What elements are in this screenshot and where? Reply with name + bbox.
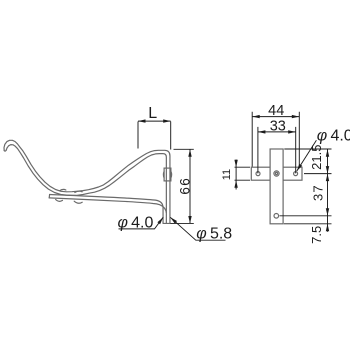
dimension 37 (311, 174, 330, 216)
rivet head upper 1 on hook strip (60, 189, 66, 190)
svg-text:37: 37 (311, 184, 326, 201)
svg-text:φ 4.0: φ 4.0 (118, 215, 154, 232)
mounting plate bottom edge (163, 222, 171, 224)
leader label diameter 4.0 (right view hole) (297, 128, 350, 171)
dimension 11 (221, 160, 250, 190)
svg-text:7.5: 7.5 (309, 226, 324, 244)
svg-text:φ 5.8: φ 5.8 (196, 226, 232, 243)
bottom hole (274, 214, 279, 219)
dimension 33 (258, 119, 296, 174)
dimension 44 (252, 103, 299, 166)
svg-text:44: 44 (268, 103, 284, 119)
svg-text:11: 11 (221, 169, 233, 180)
right side chained dimensions extension lines (280, 149, 332, 224)
horizontal cross bar (251, 167, 302, 180)
rivet head upper 2 on hook strip (75, 191, 82, 192)
leader label diameter 5.8 (plate thickness) (170, 217, 232, 242)
right hole (294, 172, 298, 176)
lower support bar strip: angled left end (48, 195, 50, 198)
svg-text:L: L (148, 105, 157, 122)
center rivet inner (275, 172, 277, 174)
hook strip upper contour: over curl apex, down right side of C, dip top, rising to top arm, bend, plate right face (4, 140, 170, 223)
left hole (256, 172, 260, 176)
rivet head lower 2 under support bar (74, 201, 82, 203)
dimension 7.5 (309, 224, 329, 244)
lower support bar top line bending down to vertical against plate (50, 195, 163, 223)
hook strip lower contour: inside curl, down left side of C, dip bottom, arm bottom, inner bend, plate left face (6, 145, 166, 224)
dimension 21.5 (309, 145, 329, 174)
shared vertical dimension line (327, 149, 329, 232)
svg-text:66: 66 (178, 177, 193, 195)
cross bar sleeve seen edge-on with rivet bulges (163, 168, 171, 181)
dimension 66 (171, 149, 194, 223)
svg-text:33: 33 (270, 119, 286, 135)
lower support bar bottom line with inner bend (49, 198, 166, 213)
dimension L (138, 105, 171, 150)
svg-text:21.5: 21.5 (309, 145, 324, 170)
vertical mounting plate (270, 149, 283, 224)
curl tip end cap (4, 149, 6, 152)
center rivet outer (274, 171, 279, 176)
svg-text:φ 4.0: φ 4.0 (317, 128, 350, 145)
leader label diameter 4.0 (left view) (118, 215, 164, 232)
rivet head lower 1 under support bar (56, 200, 63, 202)
